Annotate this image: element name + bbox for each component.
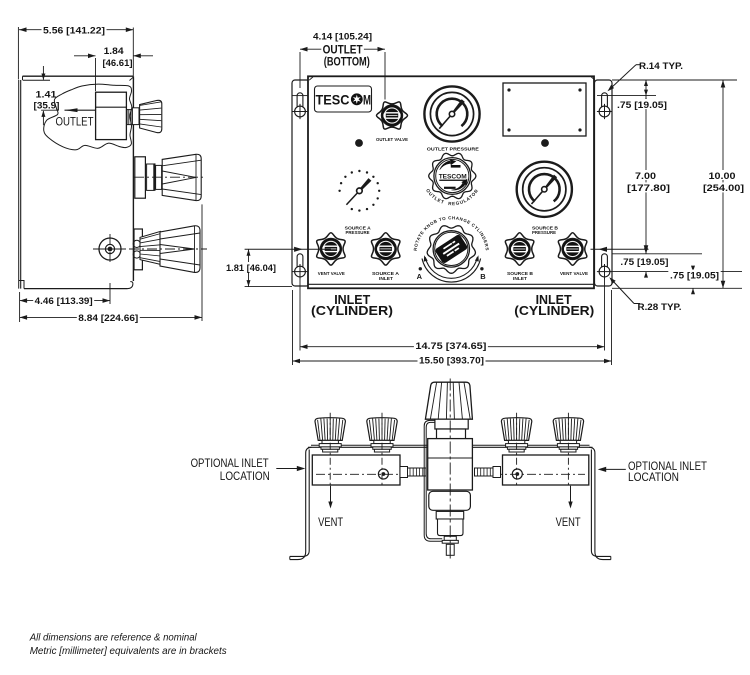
source B pressure label: [532, 225, 559, 236]
side view outlet valve body: [96, 92, 139, 139]
outlet regulator knob: [429, 153, 476, 198]
dimension 1.84 [46.61]: [74, 46, 153, 91]
svg-text:VENT: VENT: [556, 517, 581, 529]
OUTLET label and arrow: [56, 108, 96, 128]
side view centerlines: [93, 177, 207, 263]
vent valve knob A: [317, 233, 345, 265]
svg-text:4.14 [105.24]: 4.14 [105.24]: [313, 32, 372, 43]
svg-text:A: A: [417, 272, 423, 281]
OPTIONAL INLET LOCATION left: [191, 458, 306, 483]
svg-text:R.28 TYP.: R.28 TYP.: [638, 302, 682, 313]
dimension 4.46 [113.39]: [20, 283, 110, 322]
svg-text:TESC: TESC: [316, 92, 350, 107]
left bracket: [290, 447, 312, 559]
dimension 5.56 [141.22]: [18, 25, 133, 80]
svg-text:5.56 [141.22]: 5.56 [141.22]: [43, 26, 105, 37]
dimension 14.75 [374.65]: [300, 278, 605, 352]
regulator centerline: [449, 379, 451, 560]
regulator knob (bottom view): [425, 382, 472, 419]
svg-text:.75 [19.05]: .75 [19.05]: [620, 257, 668, 268]
svg-text:INLET: INLET: [379, 276, 393, 282]
dimension 4.14 OUTLET (BOTTOM): [300, 32, 385, 100]
svg-text:(CYLINDER): (CYLINDER): [514, 303, 594, 318]
regulator vent tube: [424, 420, 442, 541]
mounting keyhole top left: [297, 93, 303, 107]
svg-text:PRESSURE: PRESSURE: [346, 230, 371, 236]
inlet arrow right at vent height: [591, 247, 649, 252]
svg-text:7.00: 7.00: [635, 171, 656, 182]
outlet pressure gauge: [424, 86, 479, 141]
svg-text:LOCATION: LOCATION: [628, 472, 679, 484]
svg-text:.75 [19.05]: .75 [19.05]: [617, 100, 667, 111]
dimension .75 bottom right second: [668, 266, 720, 295]
source A pressure gauge (dotted): [338, 170, 380, 212]
VENT left: [318, 486, 343, 529]
TESCOM logo plate: [315, 86, 372, 112]
svg-text:VENT: VENT: [318, 517, 343, 529]
svg-text:14.75 [374.65]: 14.75 [374.65]: [415, 341, 486, 352]
svg-text:OUTLET: OUTLET: [56, 117, 94, 129]
svg-text:1.84: 1.84: [104, 46, 125, 57]
label plate top right: [503, 83, 586, 136]
dimension 8.84 [224.66]: [20, 204, 202, 323]
source A inlet label: [372, 271, 400, 282]
side view bottom knob assembly: [133, 226, 200, 273]
outlet valve knob: [377, 102, 408, 129]
INLET (CYLINDER) right: [514, 292, 594, 318]
svg-text:Metric [millimeter] equivalent: Metric [millimeter] equivalents are in b…: [30, 645, 228, 657]
mounting keyhole bottom right: [602, 254, 608, 267]
dimension 15.50 [393.70]: [293, 290, 612, 367]
svg-text:All dimensions are reference &: All dimensions are reference & nominal: [29, 631, 198, 643]
dimension 1.81 [46.04]: [225, 249, 293, 286]
front panel main face: [308, 76, 595, 288]
svg-text:[46.61]: [46.61]: [103, 58, 133, 69]
svg-text:(BOTTOM): (BOTTOM): [324, 57, 370, 69]
INLET (CYLINDER) left: [311, 292, 393, 318]
svg-text:VENT VALVE: VENT VALVE: [318, 271, 346, 277]
front panel left flange: [292, 80, 310, 286]
right bracket: [589, 447, 611, 559]
svg-text:1.81 [46.04]: 1.81 [46.04]: [226, 263, 276, 274]
front panel right flange: [595, 80, 613, 286]
source B inlet knob: [505, 233, 533, 265]
dimension 7.00: [626, 96, 672, 254]
svg-text:TESCOM: TESCOM: [439, 174, 467, 181]
mounting keyhole bottom left: [297, 254, 303, 267]
svg-text:.75 [19.05]: .75 [19.05]: [670, 270, 719, 281]
svg-text:1.41: 1.41: [36, 90, 58, 101]
vent valve knob B: [558, 233, 586, 265]
svg-text:INLET: INLET: [513, 276, 527, 282]
OPTIONAL INLET LOCATION right: [598, 461, 707, 484]
manifold knob A2: [367, 413, 397, 486]
svg-text:[254.00]: [254.00]: [703, 183, 744, 194]
dimension .75 bottom right first: [612, 248, 742, 278]
dimension 1.41 [35.9]: [34, 66, 60, 125]
svg-text:4.46 [113.39]: 4.46 [113.39]: [35, 296, 93, 307]
manifold knob B2: [553, 413, 583, 486]
source B inlet label: [507, 271, 534, 282]
right nipple: [475, 467, 501, 478]
mounting rail: [308, 445, 593, 447]
mounting keyhole top right: [602, 93, 608, 107]
svg-text:OUTLET: OUTLET: [323, 44, 363, 56]
svg-text:M: M: [363, 92, 371, 107]
svg-text:[177.80]: [177.80]: [627, 183, 670, 194]
svg-text:OPTIONAL INLET: OPTIONAL INLET: [191, 458, 269, 470]
source A pressure label: [345, 225, 372, 236]
svg-text:[35.9]: [35.9]: [34, 101, 60, 112]
left manifold block: [312, 455, 425, 485]
right manifold block: [476, 455, 589, 485]
side view middle regulator knob: [135, 154, 201, 200]
source B pressure gauge: [517, 162, 572, 217]
side view panel body: [19, 76, 134, 288]
svg-text:LOCATION: LOCATION: [220, 471, 270, 483]
panel hole dot left: [355, 139, 363, 147]
revision cloud around outlet: [44, 84, 132, 150]
manifold knob A1: [315, 413, 345, 486]
svg-text:10.00: 10.00: [709, 171, 736, 182]
inlet arrow left at vent height: [245, 247, 331, 252]
R.28 TYP. leader: [609, 277, 681, 313]
side view outlet valve knob: [140, 100, 162, 132]
svg-text:R.14 TYP.: R.14 TYP.: [639, 61, 683, 72]
svg-text:(CYLINDER): (CYLINDER): [311, 303, 393, 318]
svg-text:PRESSURE: PRESSURE: [532, 230, 557, 236]
svg-text:OUTLET VALVE: OUTLET VALVE: [376, 137, 409, 143]
manifold knob B1: [501, 413, 531, 486]
side view port circle: [96, 238, 124, 260]
regulator body stack: [428, 419, 473, 555]
dimension 10.00: [612, 80, 746, 288]
R.14 TYP. leader: [608, 61, 684, 91]
source A inlet knob: [371, 233, 399, 265]
svg-text:B: B: [480, 272, 486, 281]
svg-text:OUTLET PRESSURE: OUTLET PRESSURE: [427, 147, 480, 153]
svg-text:8.84 [224.66]: 8.84 [224.66]: [78, 313, 138, 324]
panel hole dot right: [541, 139, 549, 147]
cylinder change knob: [427, 226, 475, 273]
svg-text:15.50 [393.70]: 15.50 [393.70]: [419, 356, 484, 367]
VENT right: [556, 486, 581, 529]
left nipple: [400, 467, 426, 478]
rotation range arc A-B: [417, 255, 487, 282]
dimension .75 top right: [597, 80, 737, 111]
svg-text:VENT VALVE: VENT VALVE: [560, 271, 589, 277]
